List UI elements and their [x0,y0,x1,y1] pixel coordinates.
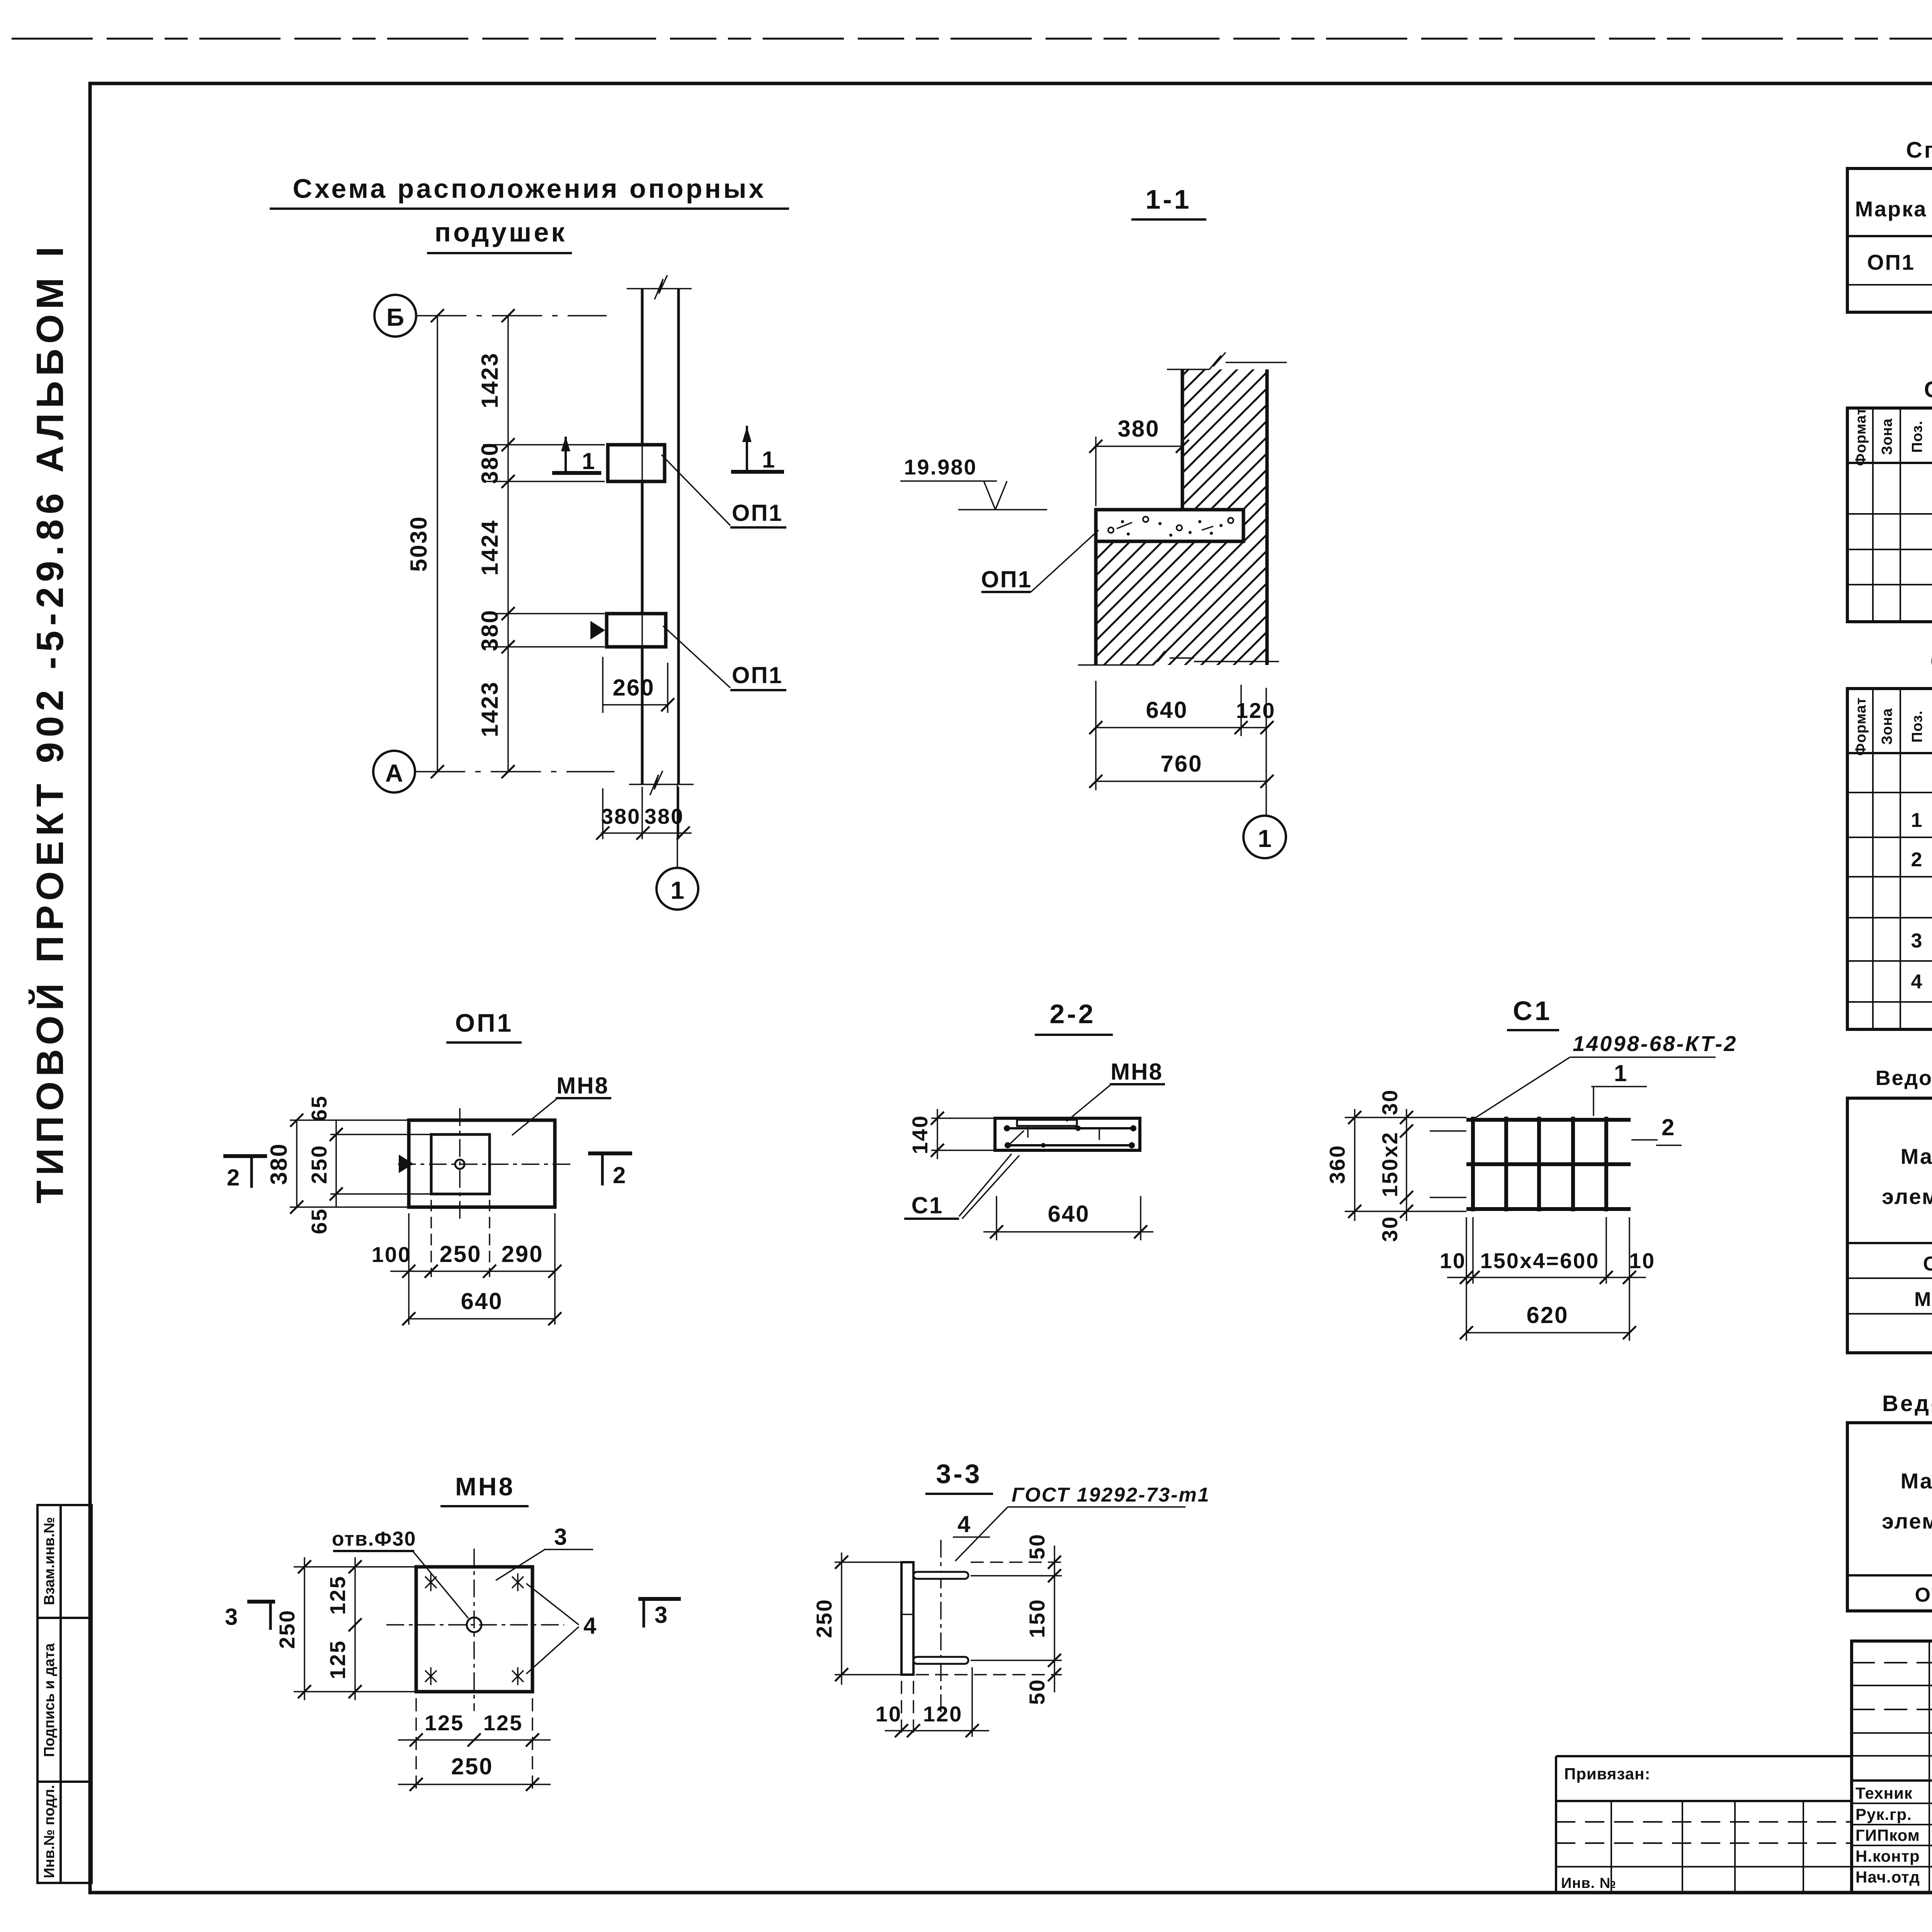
svg-text:ГИПком: ГИПком [1855,1826,1920,1844]
center hole [455,1160,464,1169]
svg-text:250: 250 [451,1753,493,1779]
axis circle А [373,751,415,793]
svg-text:Марка: Марка [1855,197,1927,221]
dim 5030 line [437,316,438,772]
centerline horizontal [398,1163,573,1165]
svg-text:50: 50 [1025,1533,1049,1560]
svg-text:380: 380 [601,804,641,828]
svg-text:10: 10 [876,1702,902,1726]
svg-text:ОП1: ОП1 [981,566,1032,592]
svg-text:290: 290 [501,1241,543,1267]
svg-text:150х4=600: 150х4=600 [1480,1248,1600,1273]
svg-text:Схема расположения опорных: Схема расположения опорных [293,173,766,204]
svg-text:элемента: элемента [1882,1509,1932,1533]
svg-text:1424: 1424 [477,519,503,575]
svg-text:10: 10 [1440,1248,1466,1273]
svg-text:2-2: 2-2 [1049,999,1095,1029]
svg-text:ОП1: ОП1 [1915,1584,1932,1606]
svg-text:760: 760 [1160,751,1202,777]
svg-text:65: 65 [307,1095,331,1121]
svg-text:19.980: 19.980 [904,455,977,479]
left margin box Инв.№ подл [37,1782,92,1883]
svg-text:С1: С1 [1513,996,1552,1026]
left margin box Подпись и дата [37,1618,92,1782]
svg-text:Ведомость расхода на элемент,: Ведомость расхода на элемент, кг [1882,1391,1932,1416]
bar mark 1 [1593,1087,1594,1116]
svg-text:3: 3 [655,1602,668,1628]
svg-text:Спецификация на опорную подушк: Спецификация на опорную подушку [1924,377,1932,402]
wall break top [627,288,692,289]
pad ОП1 lower [607,614,666,647]
dim 250 bottom МН8 [398,1784,551,1785]
svg-text:Подпись и дата: Подпись и дата [41,1643,58,1757]
svg-text:360: 360 [1325,1145,1349,1184]
svg-text:Инв. №: Инв. № [1561,1875,1616,1891]
svg-text:Н.контр: Н.контр [1855,1847,1920,1865]
svg-text:2: 2 [1662,1114,1675,1140]
svg-text:3-3: 3-3 [936,1459,982,1489]
wall line left [641,288,644,784]
title block outer [1852,1641,1932,1893]
axis line Б [416,315,607,316]
mesh vertical bars [1471,1117,1475,1211]
weld marks corners [425,1573,524,1685]
dim 10 120 bottom 3-3 [901,1681,902,1737]
svg-text:Марка: Марка [1901,1469,1932,1493]
svg-text:ОП1: ОП1 [455,1009,513,1037]
svg-text:65: 65 [307,1208,331,1234]
svg-text:Рук.гр.: Рук.гр. [1855,1805,1912,1823]
svg-text:120: 120 [923,1702,963,1726]
svg-text:Поз.: Поз. [1909,420,1925,452]
svg-text:380: 380 [1117,416,1160,442]
svg-text:30: 30 [1378,1089,1402,1115]
svg-text:ОП1: ОП1 [1867,250,1915,274]
section mark 1 right [731,470,784,474]
svg-text:380: 380 [645,804,684,828]
wall strip right of pad [1243,510,1267,541]
svg-text:30: 30 [1378,1216,1402,1242]
svg-text:Привязан:: Привязан: [1564,1765,1650,1783]
svg-text:380: 380 [266,1143,292,1185]
svg-text:640: 640 [1146,697,1188,723]
svg-text:620: 620 [1526,1302,1568,1328]
leader 4 [526,1583,579,1625]
pad outline [409,1120,555,1207]
svg-text:125: 125 [325,1640,350,1679]
dim 360 left [1345,1117,1466,1118]
pad ОП1 upper [608,445,665,481]
svg-text:1: 1 [1614,1060,1628,1086]
dim 640 120 below [1095,681,1097,790]
svg-text:1423: 1423 [477,681,503,737]
plate outline [416,1567,532,1692]
svg-text:Поз.: Поз. [1909,710,1925,742]
svg-text:50: 50 [1025,1679,1049,1705]
svg-text:4: 4 [1911,971,1923,993]
dim 760 [1096,781,1267,782]
svg-text:100: 100 [372,1242,411,1267]
svg-text:ОП1: ОП1 [732,500,783,526]
svg-text:3: 3 [1911,930,1923,952]
svg-text:250: 250 [307,1145,331,1184]
svg-text:1: 1 [1258,825,1272,852]
svg-text:ОП1: ОП1 [732,662,783,688]
svg-text:2: 2 [1911,849,1923,871]
signature grid rows [1852,1662,1932,1663]
svg-text:125: 125 [325,1575,350,1615]
svg-text:МН8: МН8 [1914,1288,1932,1311]
svg-text:Б: Б [386,303,404,331]
svg-text:250: 250 [275,1609,299,1649]
svg-text:Спецификация на изделия: Спецификация на изделия [1930,649,1932,674]
svg-text:3: 3 [554,1524,568,1550]
svg-text:14098-68-КТ-2: 14098-68-КТ-2 [1573,1031,1737,1056]
section mark 3 left [247,1600,275,1604]
svg-text:640: 640 [461,1288,503,1314]
pad section outline [995,1118,1140,1150]
svg-text:МН8: МН8 [556,1073,609,1099]
dim 125 125 left МН8 [354,1557,356,1700]
axis circle 1 section [1243,816,1286,858]
dim chain 1423/380/1424/380/1423 line [507,316,509,772]
svg-text:1: 1 [670,876,684,904]
signature grid columns [1929,1641,1930,1893]
axis circle Б [374,295,416,337]
view arrow pad2 [590,621,605,639]
Привязан block [1556,1755,1852,1757]
section mark 3 right [638,1597,681,1601]
pad ОП1 section (concrete) [1096,510,1243,541]
dim 640 2-2 [996,1196,997,1240]
svg-text:Зона: Зона [1879,708,1895,745]
svg-text:Ведомость расхода стали на одн: Ведомость расхода стали на одно изделие,… [1876,1066,1932,1090]
centerlines МН8 [473,1549,475,1711]
svg-text:элемента: элемента [1882,1184,1932,1209]
bar mark 2 [1631,1139,1658,1141]
svg-text:Формат: Формат [1853,697,1869,756]
center hole МН8 [467,1617,481,1632]
plate 3-3 [901,1562,913,1675]
leader ОП1 lower [663,626,730,688]
svg-text:120: 120 [1236,698,1276,723]
svg-text:250: 250 [439,1241,481,1267]
table1 grid [1847,168,1932,312]
svg-text:МН8: МН8 [455,1472,515,1501]
dim 125 125 bottom МН8 [415,1698,417,1793]
svg-text:С1: С1 [912,1192,944,1218]
svg-text:Марка: Марка [1901,1144,1932,1168]
dim 250 3-3 [835,1561,901,1563]
table2 grid [1847,408,1932,622]
svg-text:Нач.отд: Нач.отд [1855,1868,1920,1886]
svg-text:С1: С1 [1923,1253,1932,1275]
svg-text:140: 140 [908,1115,932,1154]
view arrow left [399,1155,413,1173]
svg-text:640: 640 [1048,1201,1090,1227]
dim 50 150 50 right [971,1561,1062,1563]
svg-text:отв.Ф30: отв.Ф30 [332,1528,417,1550]
mesh upper bar in section [1004,1127,1136,1129]
svg-text:1: 1 [1911,809,1923,832]
svg-text:ТИПОВОЙ ПРОЕКТ 902 -5-29.86 АЛ: ТИПОВОЙ ПРОЕКТ 902 -5-29.86 АЛЬБОМ I [29,241,71,1204]
svg-text:3: 3 [225,1604,239,1630]
axis leader to circle 1 section [1265,688,1267,816]
extension lines pad1 [483,444,605,446]
wall break bottom [629,784,694,785]
table4 grid [1847,1098,1932,1353]
mesh horizontal bars [1466,1118,1631,1122]
wall hatched lower block [1096,541,1267,665]
extension lines pad2 [483,613,605,614]
dim 640 bottom [409,1318,555,1320]
axis line А [415,771,614,772]
dim 100 250 290 bottom [408,1213,410,1325]
dim 380 left [290,1119,409,1121]
svg-text:380: 380 [477,609,503,651]
svg-text:4: 4 [583,1613,597,1639]
svg-text:1423: 1423 [477,352,503,408]
dim 10 150x4=600 10 bottom [1466,1217,1467,1341]
svg-text:1-1: 1-1 [1145,184,1191,214]
dim 30 150x2 30 left [1430,1130,1466,1132]
svg-text:2: 2 [227,1165,241,1190]
svg-text:4: 4 [957,1511,971,1537]
svg-text:380: 380 [477,442,503,484]
wall hatched upper [1182,369,1267,510]
dim 140 [931,1117,995,1119]
svg-text:подушек: подушек [435,217,567,247]
svg-text:260: 260 [612,675,655,701]
embedded plate МН8 outline [431,1134,490,1194]
mesh lower bar in section [1005,1144,1134,1146]
svg-text:Зона: Зона [1879,418,1895,455]
dim 260 [603,704,668,706]
svg-text:Спецификация к схеме, располож: Спецификация к схеме, расположенной на л… [1906,138,1932,163]
dim 250 left МН8 [294,1566,416,1568]
centerline vertical [459,1108,461,1220]
svg-text:ГОСТ 19292-73-т1: ГОСТ 19292-73-т1 [1012,1484,1210,1506]
table3 grid [1847,689,1932,1029]
svg-text:Взам.инв.№: Взам.инв.№ [41,1517,58,1605]
section mark 2 right [588,1151,632,1155]
section mark 1 left [552,471,601,475]
svg-text:150: 150 [1025,1599,1049,1638]
svg-text:Формат: Формат [1853,407,1869,466]
dim 380 380 bottom [601,832,692,834]
axis leader to circle 1 [677,785,678,868]
leader ОП1 upper [662,455,730,526]
wall line right [677,288,680,784]
section mark 2 left [223,1154,267,1158]
svg-text:125: 125 [425,1711,464,1735]
svg-text:1: 1 [762,447,776,473]
table5 grid [1847,1423,1932,1611]
dim 620 bottom [1466,1332,1629,1333]
svg-text:10: 10 [1629,1248,1655,1273]
embedded plate МН8 in section [1017,1120,1077,1126]
svg-text:1: 1 [582,448,596,474]
svg-text:Инв.№ подл.: Инв.№ подл. [41,1785,58,1878]
axis circle 1 plan [656,868,698,910]
svg-text:125: 125 [483,1711,523,1735]
dim 380 above [1095,446,1182,447]
dim 65 250 65 left [330,1134,431,1135]
svg-text:2: 2 [613,1162,627,1188]
anchor bar top [913,1572,968,1579]
anchor bar bottom [913,1657,968,1664]
page top dashed edge [12,38,1932,40]
svg-text:5030: 5030 [406,515,432,571]
svg-text:МН8: МН8 [1111,1059,1163,1085]
svg-text:250: 250 [812,1599,836,1638]
left margin box Взам.инв.№ [37,1505,92,1618]
svg-text:Техник: Техник [1855,1784,1913,1802]
svg-text:А: А [385,759,403,787]
svg-text:150х2: 150х2 [1378,1131,1402,1197]
